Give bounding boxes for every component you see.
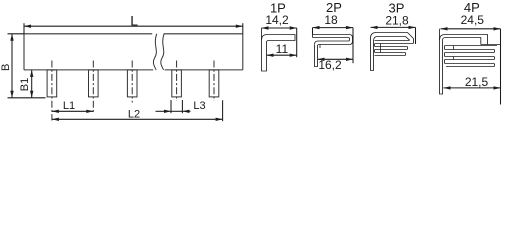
- dimension 11 label: [276, 42, 289, 56]
- dimension 14,2 line: [262, 26, 297, 29]
- 2P left extension line: [312, 28, 314, 35]
- dimension B top extension line: [8, 33, 25, 35]
- dimension B bottom extension line: [8, 97, 46, 99]
- svg-text:21,5: 21,5: [465, 75, 489, 89]
- 3P profile (triple-fold strip with leg): [371, 33, 414, 71]
- dimension 14,2 label: [265, 13, 289, 27]
- dimension 21,5 label: [465, 75, 489, 89]
- 2P profile (S-fold strip with leg): [313, 35, 353, 67]
- pin 5 centerline: [213, 61, 215, 102]
- dimension 24,5 line: [441, 27, 501, 30]
- 4P profile (quad-fold strip with leg and right blade): [440, 29, 501, 94]
- pin 4 centerline: [176, 61, 178, 102]
- dimension 11 line: [267, 54, 297, 57]
- svg-text:24,5: 24,5: [461, 13, 485, 27]
- pin 5: [209, 70, 219, 97]
- 3P right extension line: [415, 27, 417, 44]
- dimension L1 label: [63, 100, 75, 112]
- dimension B line: [10, 34, 13, 98]
- dimension L1 line: [52, 110, 93, 113]
- dimension L extension line right: [242, 23, 244, 34]
- busbar body (side view, with break): [24, 34, 243, 70]
- dimension 16,2 label: [318, 58, 342, 72]
- pin 1 centerline: [51, 61, 53, 121]
- pin 3: [127, 70, 137, 97]
- svg-text:14,2: 14,2: [265, 13, 289, 27]
- 1P right extension line: [296, 28, 298, 57]
- dimension L3 label: [193, 100, 205, 112]
- dimension L2 line: [52, 118, 223, 121]
- pin 2 centerline: [92, 61, 94, 113]
- label 3P: [389, 1, 405, 16]
- dimension B label: [0, 64, 12, 71]
- svg-text:B1: B1: [19, 78, 31, 91]
- pin 3 centerline: [131, 61, 133, 103]
- dimension B1 line: [30, 70, 33, 98]
- pin 4: [172, 70, 182, 97]
- dimension 21,8 line: [371, 26, 416, 29]
- dimension 21,8 label: [385, 14, 409, 28]
- pin 1: [47, 70, 57, 97]
- svg-text:11: 11: [276, 42, 289, 56]
- dimension 24,5 label: [461, 13, 485, 27]
- dimension L label: [130, 12, 138, 28]
- svg-text:B: B: [0, 64, 12, 71]
- svg-text:16,2: 16,2: [318, 58, 342, 72]
- label 2P: [326, 0, 342, 15]
- dimension 16,2 line: [318, 58, 354, 61]
- dimension L2 label: [128, 108, 140, 120]
- break line left: [153, 34, 156, 70]
- label 4P: [464, 0, 480, 15]
- dimension L line: [24, 25, 243, 28]
- dimension L3 lines: [156, 100, 191, 113]
- svg-text:L1: L1: [63, 100, 75, 112]
- svg-text:L3: L3: [193, 100, 205, 112]
- svg-text:L2: L2: [128, 108, 140, 120]
- dimension 18 label: [324, 13, 338, 27]
- dimension L extension line left: [23, 23, 25, 34]
- 2P right extension line: [352, 28, 354, 64]
- dimension 18 line: [313, 26, 354, 29]
- break line right: [161, 34, 164, 70]
- pin 2: [89, 70, 99, 97]
- dimension L2 right extension line: [222, 100, 224, 121]
- 1P profile (L-fold strip): [262, 28, 296, 71]
- label 1P: [270, 0, 286, 15]
- 4P right blade / shared extension line: [500, 29, 502, 105]
- svg-text:18: 18: [324, 13, 338, 27]
- dimension B1 label: [19, 78, 31, 91]
- svg-text:L: L: [130, 12, 138, 28]
- svg-text:21,8: 21,8: [385, 14, 409, 28]
- dimension 21,5 line: [444, 86, 501, 89]
